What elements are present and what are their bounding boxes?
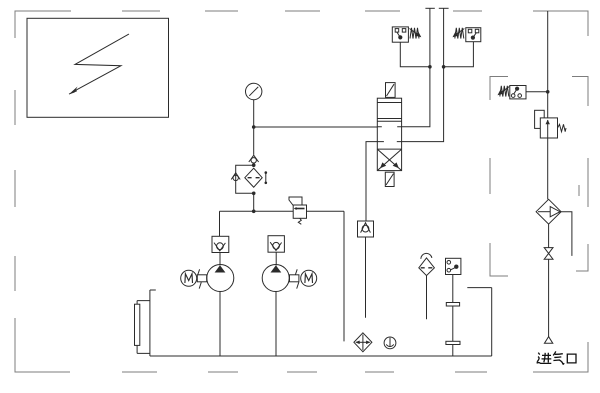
float stop upper — [446, 303, 459, 307]
pressure switch PS1 — [392, 27, 421, 42]
wire gauge stem — [253, 100, 255, 127]
node J1 — [252, 125, 256, 129]
drawing frame top dash 5 — [365, 10, 400, 12]
pump P1 — [207, 265, 234, 292]
node J4 — [252, 210, 256, 214]
drawing frame top dash 4 — [285, 10, 320, 12]
drawing frame top-right corner — [533, 11, 588, 36]
pump P2 — [262, 265, 289, 292]
wire PS3 to riser — [526, 91, 548, 93]
filter F1 — [245, 168, 262, 187]
wire air inlet line — [548, 259, 550, 337]
motor M2 — [301, 270, 317, 286]
clogging indicator F1 — [265, 171, 268, 184]
oil tank — [150, 288, 492, 356]
thermometer T1 — [384, 337, 396, 349]
wire valve right lower — [402, 8, 444, 141]
wire gauge branch down — [253, 127, 255, 155]
node J7 — [546, 90, 550, 94]
check valve CB2 pump2 — [268, 236, 284, 253]
node J2 — [252, 163, 256, 167]
drawing frame bottom-left corner — [15, 318, 70, 372]
wire manifold right — [307, 210, 345, 212]
oil level gauge LG1 — [135, 301, 150, 354]
air unit enclosure right dash — [578, 185, 580, 196]
wire air supply main riser — [547, 11, 549, 118]
wire BV1 drain down — [365, 237, 367, 318]
pressure reducing valve RV2 pilot box — [535, 110, 545, 128]
motor M1 — [181, 270, 197, 286]
electric control box — [27, 18, 169, 117]
node J5 — [428, 65, 432, 69]
air unit enclosure top-left corner — [490, 77, 508, 101]
wire RV2 to air filter — [547, 138, 549, 199]
air unit enclosure top-right corner — [572, 77, 588, 107]
pressure switch PS2 — [453, 28, 481, 42]
wire PS1 to riser — [400, 42, 430, 67]
air inlet funnel — [544, 337, 552, 344]
pressure reducing valve RV2 — [540, 118, 566, 138]
ball check valve BV1 — [358, 221, 374, 237]
drawing frame bottom dash 5 — [365, 371, 394, 373]
drawing frame bottom dash 3 — [208, 371, 238, 373]
level switch LS1 — [446, 258, 461, 274]
air breather B2 — [354, 333, 372, 352]
air unit enclosure bottom-right corner — [576, 244, 588, 271]
relief valve RV1 — [289, 197, 307, 224]
coupling M1-P1 — [197, 269, 206, 288]
wire B1 into tank — [426, 276, 428, 320]
air unit enclosure bottom-left corner — [490, 243, 508, 276]
float stop lower — [446, 341, 460, 344]
check valve CB1 pump1 — [212, 236, 229, 252]
drawing frame bottom-right corner — [533, 342, 588, 372]
coupling M2-P2 — [290, 269, 299, 288]
drawing frame bottom dash 4 — [287, 371, 317, 373]
drawing frame top dash 2 — [122, 10, 160, 12]
drawing frame left dash 4 — [14, 256, 16, 291]
air filter AF1 — [536, 199, 561, 224]
solenoid A directional valve — [386, 83, 396, 98]
wire AF1 drain — [561, 212, 572, 256]
drawing frame left dash 2 — [14, 90, 16, 125]
wire LS1 float rod — [452, 275, 454, 357]
directional valve DV1 body — [377, 98, 401, 170]
pressure switch PS3 — [498, 86, 527, 99]
wire valve A-port left lower — [366, 142, 377, 221]
air unit enclosure left dash — [489, 158, 491, 194]
wire pump manifold left — [220, 210, 294, 212]
drawing frame dashed border top-left corner — [15, 11, 71, 38]
label 进气口 air inlet text — [537, 351, 576, 364]
pressure gauge PG1 — [246, 83, 262, 99]
drawing frame bottom dash 6 — [455, 371, 487, 373]
solenoid B directional valve — [385, 172, 394, 186]
filler breather B1 — [419, 253, 435, 275]
drawing frame bottom dash 2 — [122, 371, 157, 373]
check valve CV2 bypass — [231, 173, 240, 181]
wire CB2 to pump2 — [275, 252, 277, 265]
wire filter bypass loop — [236, 165, 254, 193]
wire manifold to valve P port — [254, 126, 378, 128]
node J3 — [252, 192, 256, 196]
line end tick upper — [425, 7, 434, 9]
wire pump2 suction — [275, 292, 277, 357]
wire CB1 to pump1 — [219, 253, 221, 266]
lightning arrow inside control box — [69, 34, 129, 94]
wire filter to manifold — [253, 193, 255, 211]
wire return line to tank — [343, 211, 345, 341]
wire pump1 suction — [219, 292, 221, 357]
line end tick lower — [439, 7, 449, 9]
wire valve B-port right upper — [402, 8, 430, 126]
wire pump1 outlet riser — [219, 211, 221, 236]
drawing frame top dash 6 — [453, 10, 482, 12]
node J6 — [442, 65, 446, 69]
drawing frame right dash 2 — [587, 158, 589, 207]
drawing frame left dash 3 — [14, 170, 16, 207]
drawing frame top dash 3 — [205, 10, 238, 12]
wire AF1 to shutoff — [548, 224, 550, 248]
shutoff valve SV1 — [544, 248, 553, 260]
wire PS2 to riser — [444, 42, 474, 67]
check valve CV1 — [249, 155, 259, 163]
